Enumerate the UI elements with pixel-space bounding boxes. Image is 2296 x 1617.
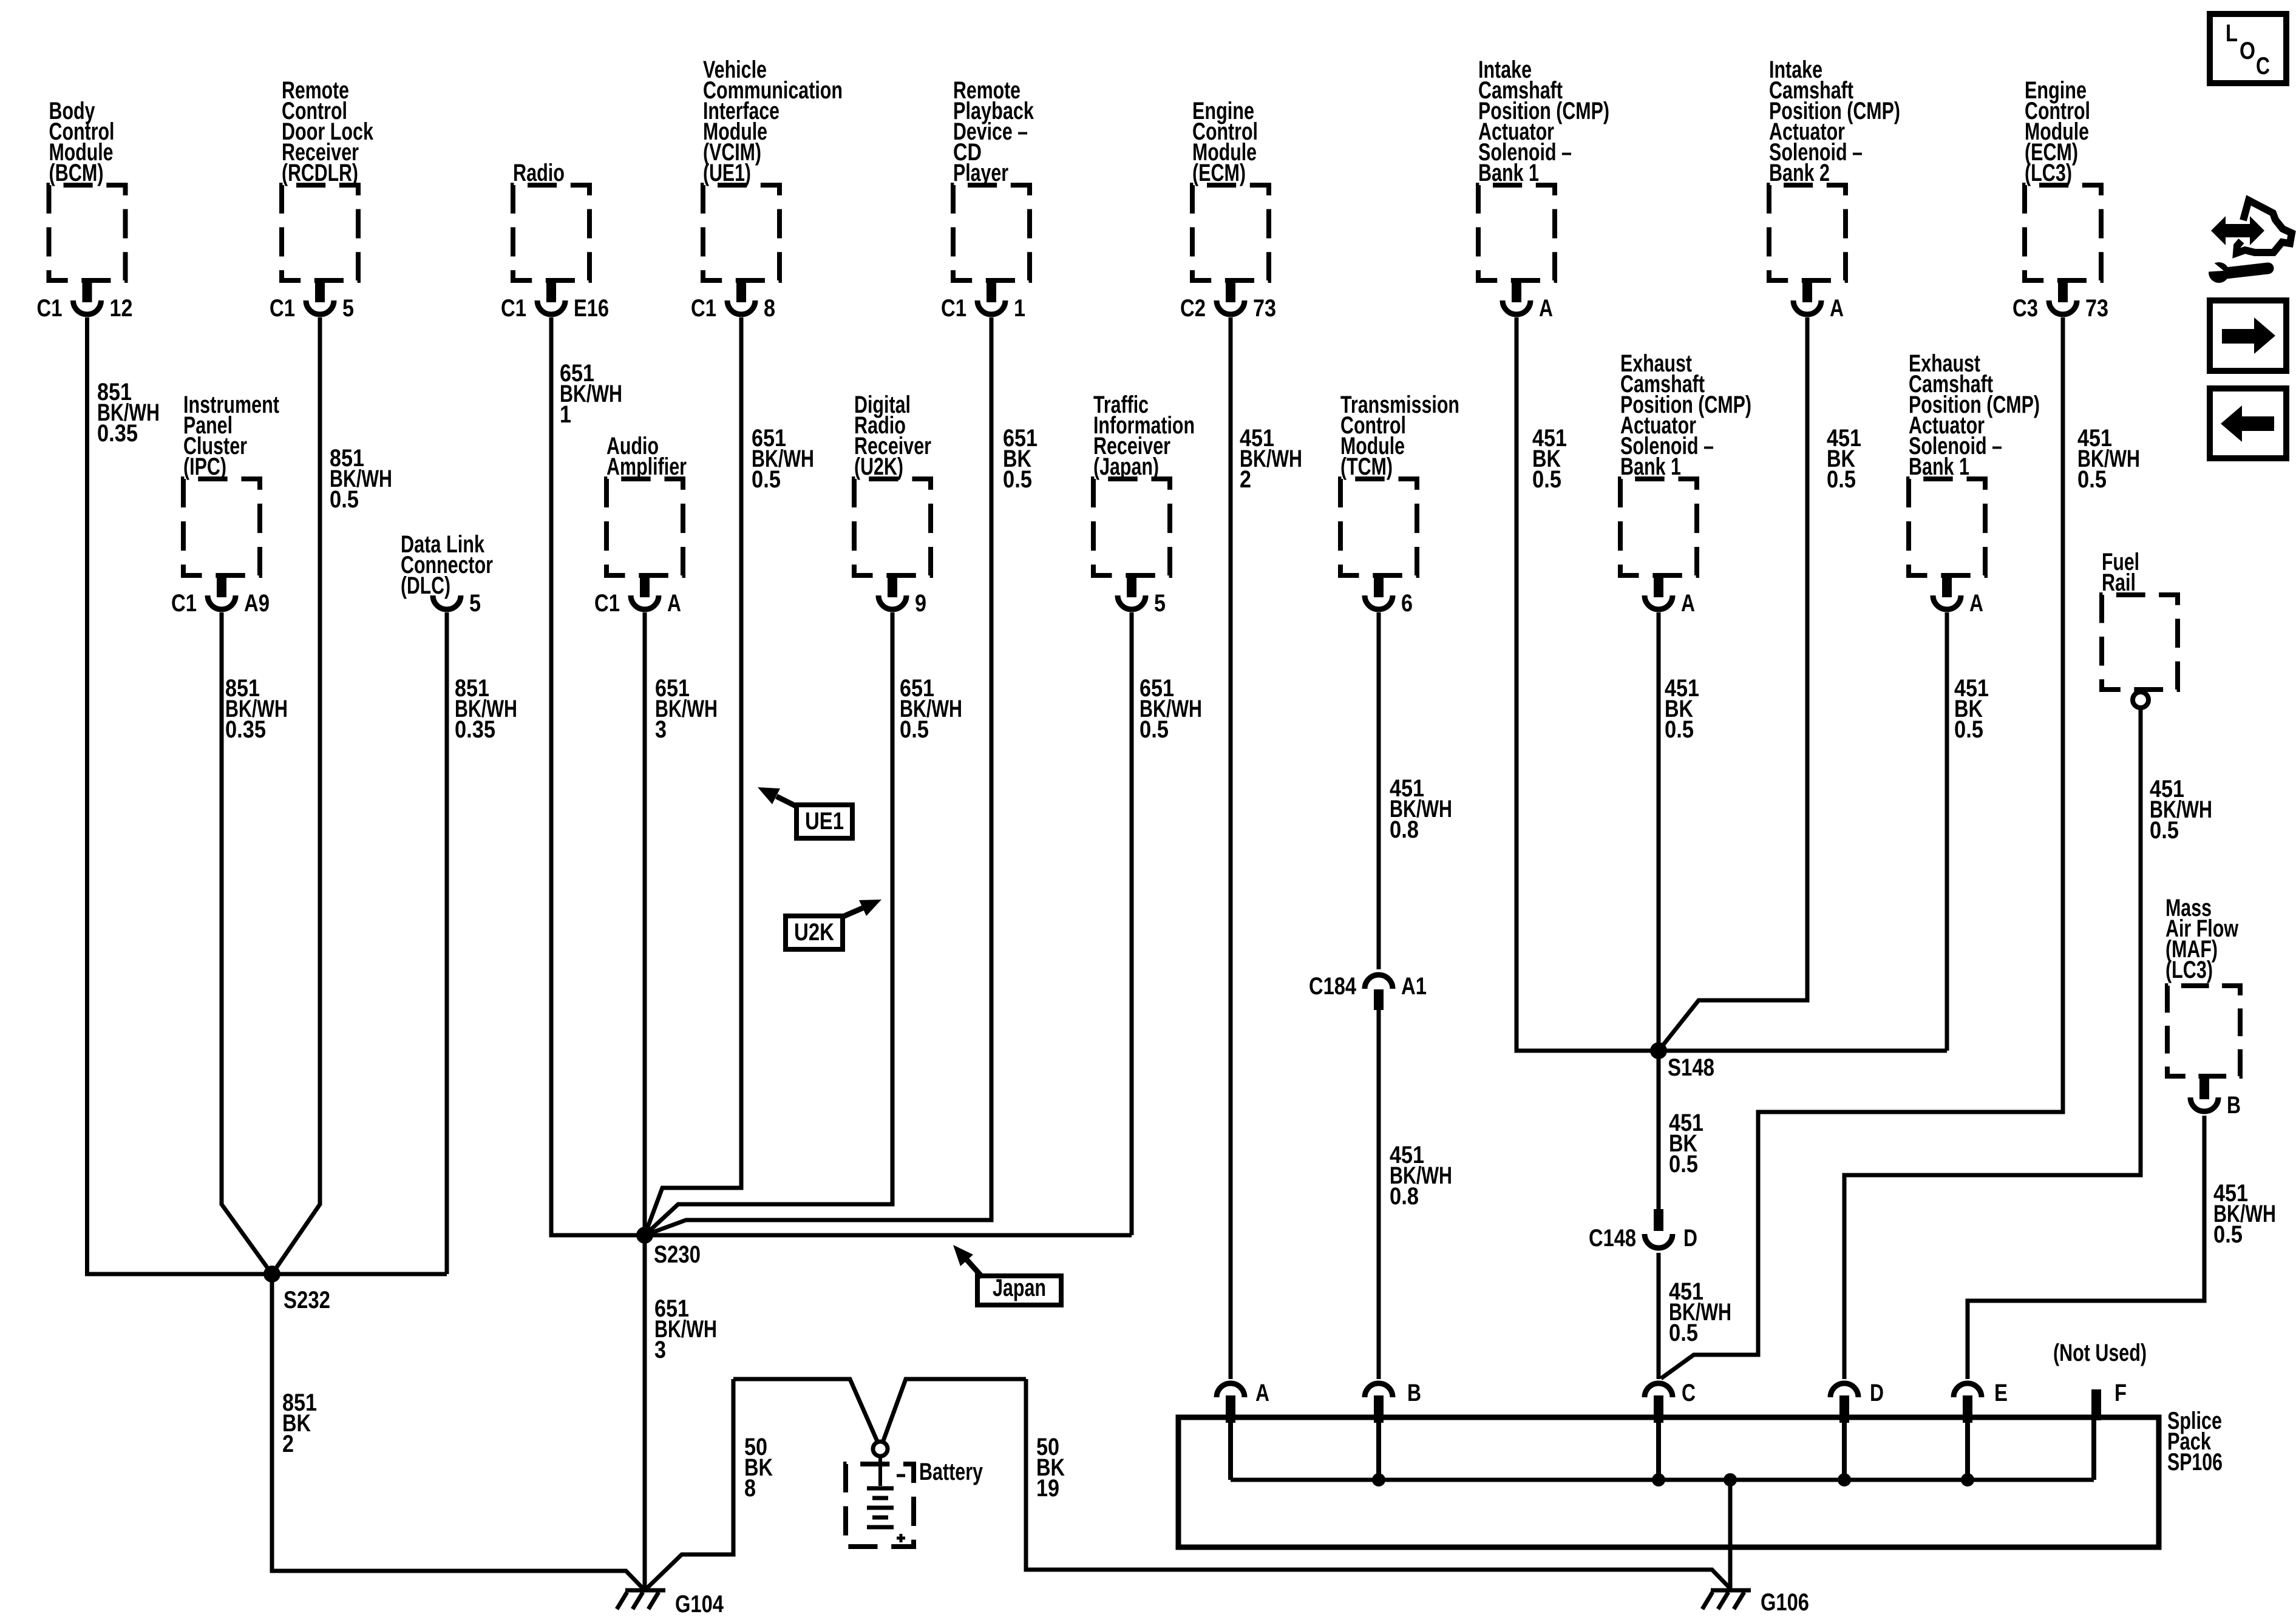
svg-text:0.5: 0.5 (900, 716, 929, 743)
svg-text:0.35: 0.35 (97, 420, 138, 447)
svg-text:Japan: Japan (993, 1275, 1046, 1301)
svg-text:C1: C1 (594, 590, 620, 617)
svg-text:3: 3 (655, 716, 667, 743)
svg-text:C: C (2256, 53, 2270, 80)
svg-text:SP106: SP106 (2167, 1449, 2223, 1476)
svg-text:0.5: 0.5 (2150, 817, 2179, 844)
svg-text:A1: A1 (1401, 973, 1427, 1000)
svg-text:0.8: 0.8 (1390, 816, 1419, 843)
svg-text:Player: Player (953, 160, 1008, 186)
svg-text:0.5: 0.5 (1827, 466, 1856, 493)
svg-text:Bank 1: Bank 1 (1909, 453, 1969, 480)
svg-text:A: A (1969, 590, 1983, 617)
svg-text:C1: C1 (501, 295, 526, 322)
svg-text:(U2K): (U2K) (854, 453, 903, 480)
svg-text:B: B (1407, 1380, 1421, 1406)
svg-text:S148: S148 (1668, 1054, 1714, 1081)
svg-text:F: F (2114, 1380, 2127, 1406)
svg-text:C184: C184 (1309, 973, 1357, 1000)
svg-text:C1: C1 (941, 295, 966, 322)
svg-text:L: L (2226, 20, 2238, 47)
svg-text:0.35: 0.35 (225, 716, 266, 743)
svg-text:C1: C1 (691, 295, 716, 322)
svg-text:(ECM): (ECM) (1192, 160, 1246, 186)
svg-text:U2K: U2K (794, 919, 834, 946)
svg-text:(LC3): (LC3) (2165, 957, 2213, 983)
svg-text:0.5: 0.5 (1003, 466, 1032, 493)
svg-text:9: 9 (915, 590, 926, 617)
svg-text:A: A (1681, 590, 1695, 617)
svg-text:(UE1): (UE1) (703, 160, 751, 186)
svg-text:19: 19 (1036, 1475, 1059, 1502)
svg-text:(IPC): (IPC) (183, 453, 226, 480)
svg-text:C1: C1 (37, 295, 63, 322)
svg-text:Rail: Rail (2102, 569, 2136, 596)
svg-text:0.5: 0.5 (1665, 716, 1694, 743)
svg-text:A: A (1830, 295, 1844, 322)
svg-text:Battery: Battery (919, 1459, 983, 1485)
svg-text:O: O (2240, 38, 2255, 64)
svg-text:E: E (1994, 1380, 2008, 1406)
svg-text:0.5: 0.5 (1140, 716, 1169, 743)
svg-text:1: 1 (1014, 295, 1025, 322)
svg-text:C: C (1682, 1380, 1696, 1406)
svg-text:G104: G104 (675, 1591, 724, 1617)
svg-text:UE1: UE1 (805, 808, 844, 835)
svg-text:12: 12 (110, 295, 133, 322)
svg-text:(LC3): (LC3) (2025, 160, 2072, 186)
svg-text:8: 8 (744, 1475, 756, 1502)
svg-text:Bank 1: Bank 1 (1620, 453, 1681, 480)
svg-text:5: 5 (469, 590, 481, 617)
svg-text:E16: E16 (574, 295, 609, 322)
svg-text:(DLC): (DLC) (401, 572, 450, 599)
svg-text:S230: S230 (654, 1241, 701, 1268)
svg-text:Radio: Radio (513, 160, 565, 186)
svg-text:Bank 1: Bank 1 (1478, 160, 1539, 186)
svg-text:0.5: 0.5 (1532, 466, 1561, 493)
svg-text:S232: S232 (284, 1287, 330, 1314)
svg-text:A: A (1539, 295, 1553, 322)
svg-text:D: D (1870, 1380, 1884, 1406)
svg-text:C3: C3 (2012, 295, 2038, 322)
svg-text:(BCM): (BCM) (49, 160, 104, 186)
svg-text:(Japan): (Japan) (1093, 453, 1159, 480)
svg-text:(Not Used): (Not Used) (2053, 1340, 2147, 1366)
svg-text:5: 5 (342, 295, 354, 322)
svg-text:(RCDLR): (RCDLR) (282, 160, 358, 186)
svg-text:G106: G106 (1761, 1589, 1809, 1616)
svg-text:0.5: 0.5 (330, 486, 359, 513)
svg-text:8: 8 (764, 295, 775, 322)
svg-text:(TCM): (TCM) (1340, 453, 1393, 480)
svg-text:A: A (1255, 1380, 1269, 1406)
svg-text:Amplifier: Amplifier (606, 453, 687, 480)
svg-text:5: 5 (1154, 590, 1166, 617)
svg-text:0.5: 0.5 (2077, 466, 2107, 493)
svg-text:73: 73 (2085, 295, 2108, 322)
svg-text:0.5: 0.5 (1669, 1151, 1698, 1178)
svg-text:A9: A9 (244, 590, 270, 617)
svg-text:2: 2 (1240, 466, 1251, 493)
svg-text:Bank 2: Bank 2 (1769, 160, 1830, 186)
svg-text:D: D (1683, 1225, 1697, 1252)
svg-text:0.5: 0.5 (1954, 716, 1983, 743)
svg-text:C1: C1 (270, 295, 295, 322)
svg-text:A: A (667, 590, 681, 617)
svg-text:0.8: 0.8 (1390, 1183, 1419, 1210)
svg-text:C1: C1 (171, 590, 197, 617)
svg-text:C2: C2 (1180, 295, 1206, 322)
svg-text:0.5: 0.5 (752, 466, 781, 493)
svg-text:2: 2 (282, 1431, 294, 1457)
svg-text:B: B (2227, 1092, 2241, 1119)
svg-text:0.5: 0.5 (1669, 1320, 1698, 1346)
svg-text:0.5: 0.5 (2213, 1221, 2243, 1248)
svg-text:1: 1 (560, 401, 571, 428)
svg-text:0.35: 0.35 (455, 716, 495, 743)
svg-text:73: 73 (1253, 295, 1276, 322)
svg-text:3: 3 (654, 1337, 666, 1363)
svg-text:6: 6 (1401, 590, 1413, 617)
svg-text:C148: C148 (1589, 1225, 1636, 1252)
